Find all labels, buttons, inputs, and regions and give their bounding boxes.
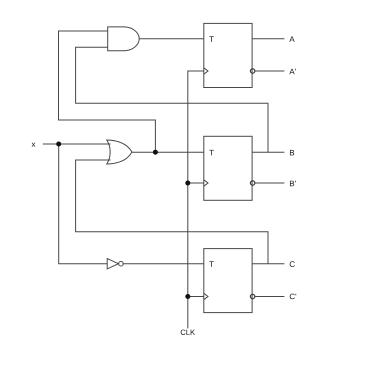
wire: U2 Q output to B (252, 151, 284, 153)
wire: C output feedback to OR bottom input (76, 160, 268, 264)
wire: CLK line up to U1 clock (188, 71, 204, 328)
flip-flop U2 (T flip-flop, outputs B / B') (204, 136, 252, 200)
bubble U3 Q' (250, 294, 254, 298)
flip-flop U1 (T flip-flop, outputs A / A') (204, 23, 252, 87)
clock wedge U1 (204, 68, 208, 74)
wire: U2 Q' output to B' (255, 182, 285, 184)
label T of U3 (209, 261, 214, 267)
wire: NOT gate output to U3 T input (123, 263, 204, 265)
wire: U1 Q output to A (252, 38, 284, 40)
wire: OR output node feedback to AND top input (59, 31, 156, 152)
wire: B output feedback to AND bottom input (76, 47, 268, 152)
wire: x node down to NOT gate input (59, 144, 107, 264)
node: OR output junction (153, 150, 158, 155)
clock wedge U2 (204, 180, 208, 186)
bubble U2 Q' (250, 181, 254, 185)
wire: x input to OR gate top input (43, 143, 111, 145)
bubble U1 Q' (250, 69, 254, 73)
wire: U3 Q' output to C' (255, 296, 285, 298)
NOT gate G3 bubble (119, 261, 124, 266)
flip-flop U3 (T flip-flop, outputs C / C') (204, 249, 252, 313)
wire: CLK stub to U2 clock (188, 182, 204, 184)
label A (289, 36, 294, 42)
node: CLK junction at U2 (185, 181, 190, 186)
node: CLK junction at U3 (185, 294, 190, 299)
label B (290, 150, 294, 156)
label C' (290, 294, 296, 300)
clock wedge U3 (204, 293, 208, 299)
label T of U2 (209, 150, 214, 156)
label B' (290, 181, 296, 187)
label A' (289, 69, 295, 75)
wire: U3 Q output to C (252, 263, 284, 265)
wire: CLK stub to U3 clock (188, 296, 204, 298)
node: x input junction (56, 142, 61, 147)
AND gate G1 (108, 27, 140, 51)
wire: OR gate output to U2 T input (132, 151, 204, 153)
wire: U1 Q' output to A' (255, 70, 285, 72)
label T of U1 (209, 36, 214, 42)
label C (290, 261, 295, 267)
wire: AND gate output to U1 T input (139, 38, 204, 40)
label CLK (181, 330, 195, 335)
OR gate G2 (107, 140, 132, 164)
label x input (32, 143, 36, 147)
NOT gate G3 triangle (107, 259, 118, 269)
